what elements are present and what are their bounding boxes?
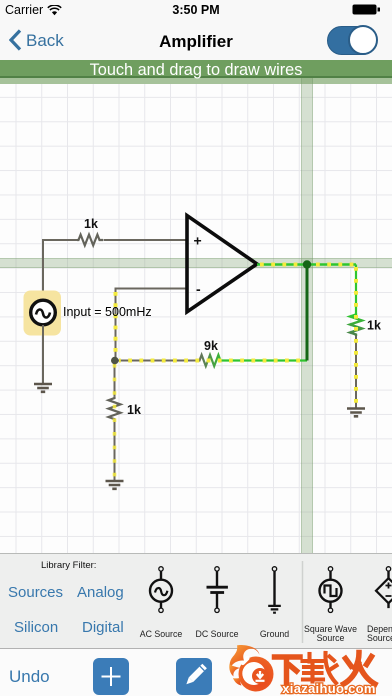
toggle switch (on) [327,26,377,55]
highlight column [301,78,313,553]
bottom toolbar [0,648,392,696]
add button [93,658,129,695]
svg-text:+: + [194,233,202,249]
AC Source icon [150,567,172,613]
battery icon [352,4,380,15]
wire: AC source bottom to ground [42,325,44,384]
resistor R2 9k (feedback) [198,355,224,366]
wire: op-amp output row [257,263,356,265]
ground (bottom-left) [106,481,124,489]
ground (left) [34,384,52,392]
status bar [0,0,392,20]
wire: junction to 9k [116,360,199,362]
resistor R1 1k (input) [77,235,103,246]
banner [0,60,392,84]
wire dashes: load column [354,267,358,408]
wire: op-amp - input [116,289,188,361]
DC Source icon [207,567,228,613]
wire: load resistor to ground [355,336,357,409]
flame [229,645,273,691]
wire dashes: feedback vertical [114,292,118,361]
junction node (op-amp output) [303,260,311,268]
section divider [302,561,304,643]
circuit canvas [0,84,392,553]
svg-text:1k: 1k [84,217,98,231]
wire dashes: 9k row [119,359,305,363]
svg-text:xiazaihuo.com: xiazaihuo.com [282,681,375,696]
wire: 9k to feedback column [224,359,307,361]
watermark logo [228,644,392,696]
junction node (inverting input / feedback) [111,357,119,365]
AC source V1 highlight [24,291,62,336]
wire: junction down to R4 [114,361,116,397]
svg-text:1k: 1k [367,319,381,333]
op-amp U1 [187,216,257,312]
AC source V1 [31,300,56,325]
wire: feedback vertical (dark green) [306,265,309,361]
highlight row [0,258,392,268]
wire: output to load resistor [355,265,357,314]
wire: AC source top to input resistor corner [43,240,77,300]
nav bar [0,20,392,60]
svg-text:9k: 9k [204,339,218,353]
svg-text:Input = 500mHz: Input = 500mHz [63,305,152,319]
chinese characters 下载火 [275,657,301,684]
Ground icon [268,567,281,613]
resistor R3 1k (load) [350,313,362,336]
wire dashes: output row [260,263,356,267]
svg-text:1k: 1k [127,403,141,417]
library panel [0,553,392,648]
wifi icon [47,5,62,16]
Square Wave Source icon [320,567,342,613]
pencil button [176,658,212,695]
resistor R4 1k (to ground) [109,397,121,421]
back chevron [9,29,22,51]
wire dashes: grounding column [113,364,117,480]
ground (right) [347,409,365,417]
svg-text:-: - [196,281,201,297]
Dependent Source icon (clipped) [376,567,392,608]
wire: R1 to op-amp + input [104,239,188,241]
wire: R4 to ground [114,421,116,481]
